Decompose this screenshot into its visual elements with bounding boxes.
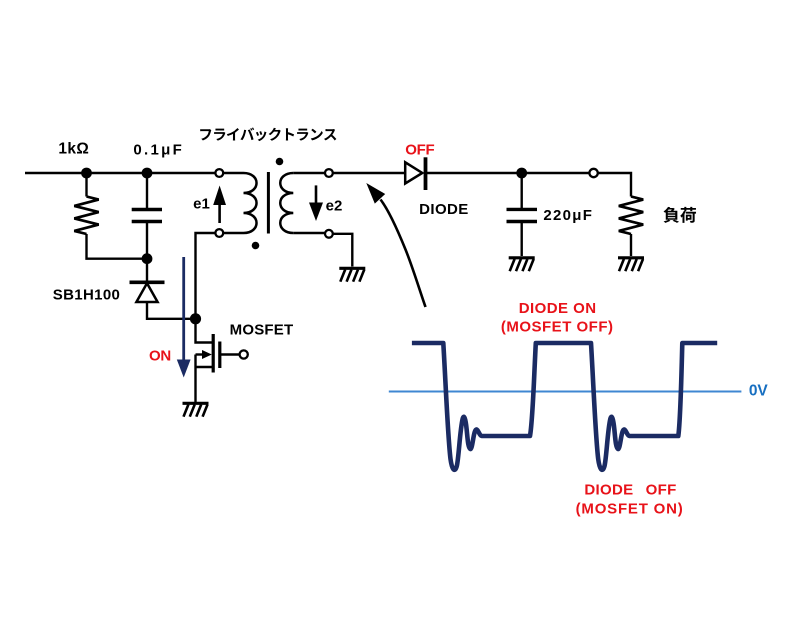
transformer T1 secondary winding	[280, 173, 293, 233]
arrow ON current (navy, down)	[182, 257, 185, 360]
ground (load)	[618, 256, 644, 259]
svg-text:DIODE: DIODE	[419, 201, 469, 218]
svg-text:e1: e1	[193, 196, 210, 213]
MOSFET Q1 source lead	[196, 355, 213, 403]
transformer T1 secondary top terminal	[325, 169, 333, 177]
diode D2 SB1H100 (pointing up)	[146, 259, 148, 281]
wire: D2 anode to MOSFET drain node	[147, 302, 196, 319]
waveform 0V reference line (blue)	[389, 391, 742, 393]
MOSFET Q1 gate lead	[221, 353, 240, 355]
node: open terminal on output rail	[589, 169, 597, 177]
wire: output rail to load	[598, 173, 631, 197]
MOSFET Q1 gate terminal	[240, 350, 248, 358]
MOSFET Q1 channel bar	[212, 334, 215, 373]
transformer T1 primary winding	[223, 172, 244, 174]
ground (C2)	[509, 256, 535, 259]
capacitor C1 0.1μF	[146, 173, 148, 210]
svg-text:SB1H100: SB1H100	[53, 286, 121, 303]
wire: primary bottom to drain node	[196, 233, 216, 314]
wire: D1 cathode to output rail	[426, 172, 590, 174]
svg-text:DIODE ON: DIODE ON	[519, 300, 597, 317]
svg-text:e2: e2	[326, 198, 343, 215]
polarity dot primary	[252, 242, 260, 250]
diode D1	[405, 162, 422, 183]
label 負荷 (load)	[663, 207, 679, 223]
wire: secondary top to diode D1	[333, 172, 405, 174]
svg-text:DIODE OFF: DIODE OFF	[584, 482, 676, 499]
svg-text:OFF: OFF	[405, 142, 434, 159]
node: junction at C1 top	[142, 168, 153, 179]
waveform trace (navy)	[412, 343, 717, 470]
arrow e2 (down)	[315, 185, 318, 203]
wire: input rail	[25, 172, 216, 174]
MOSFET Q1 drain lead	[196, 319, 213, 343]
polarity dot secondary	[276, 158, 284, 166]
svg-text:220μF: 220μF	[543, 207, 593, 224]
wire: secondary bottom to ground	[333, 234, 353, 267]
transformer T1 core	[267, 172, 270, 234]
node: junction at R1 top	[81, 168, 92, 179]
transformer T1 primary bottom terminal	[215, 229, 223, 237]
svg-text:(MOSFET OFF): (MOSFET OFF)	[501, 319, 614, 336]
transformer T1 secondary bottom terminal	[325, 230, 333, 238]
svg-text:1kΩ: 1kΩ	[58, 141, 89, 158]
transformer T1 primary top terminal	[215, 169, 223, 177]
node: junction at C2	[516, 168, 527, 179]
svg-text:MOSFET: MOSFET	[230, 321, 294, 338]
svg-text:ON: ON	[149, 348, 171, 365]
MOSFET Q1 body arrow	[196, 353, 203, 355]
ground (secondary)	[339, 267, 365, 270]
node: junction C1 bottom	[142, 253, 153, 264]
wire: R1 bottom to C1 bottom node	[87, 234, 148, 259]
node: junction at MOSFET drain	[190, 313, 201, 324]
svg-text:(MOSFET ON): (MOSFET ON)	[576, 501, 684, 518]
arrow e1 (up)	[218, 204, 221, 223]
MOSFET Q1 gate bar	[218, 342, 221, 369]
resistor R1 1kΩ	[85, 173, 87, 197]
svg-text:0.1μF: 0.1μF	[133, 141, 184, 158]
resistor R2 load	[619, 197, 643, 235]
ground (MOSFET source)	[183, 402, 209, 405]
label フライバックトランス (flyback transformer)	[200, 129, 211, 140]
annotation arrow to diode node	[381, 200, 426, 308]
capacitor C2 220μF	[521, 173, 523, 209]
svg-text:0V: 0V	[749, 383, 769, 400]
